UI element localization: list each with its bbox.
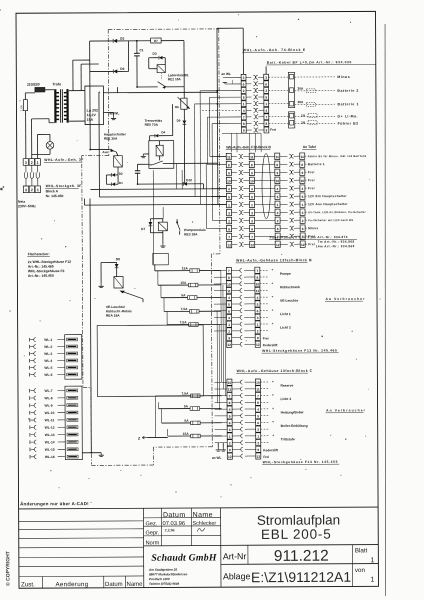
svg-text:Postfach 1160: Postfach 1160 bbox=[149, 577, 170, 581]
relay contact REA with arrow bbox=[122, 291, 143, 299]
svg-text:230V~50Hz: 230V~50Hz bbox=[18, 204, 36, 208]
connector column B4 bbox=[300, 153, 305, 159]
charger output feed to battery bbox=[103, 91, 217, 94]
charger module LA 202 bbox=[85, 86, 104, 125]
svg-text:Kederslift: Kederslift bbox=[263, 343, 279, 347]
svg-text:9: 9 bbox=[229, 448, 231, 452]
svg-text:WHL-Steckgehäuse F3: WHL-Steckgehäuse F3 bbox=[28, 269, 65, 273]
svg-text:8: 8 bbox=[256, 276, 258, 280]
svg-text:14m Art.-Nr.: 934.869: 14m Art.-Nr.: 934.869 bbox=[316, 244, 355, 248]
svg-text:07.03.96: 07.03.96 bbox=[162, 521, 185, 527]
svg-text:an WL: an WL bbox=[221, 72, 231, 76]
svg-text:Boiler-Entlüftung: Boiler-Entlüftung bbox=[281, 424, 308, 428]
svg-text:110/220: 110/220 bbox=[27, 83, 40, 87]
svg-text:4: 4 bbox=[251, 187, 253, 191]
svg-text:WL-15: WL-15 bbox=[45, 448, 55, 452]
svg-text:4: 4 bbox=[302, 187, 304, 191]
svg-text:1: 1 bbox=[257, 323, 259, 327]
svg-text:11: 11 bbox=[227, 289, 231, 293]
svg-text:WL-1: WL-1 bbox=[44, 338, 52, 342]
connector column B1 bbox=[226, 153, 231, 159]
svg-text:3: 3 bbox=[228, 211, 230, 215]
connector column D2 bbox=[255, 379, 260, 385]
svg-text:Batterie 1: Batterie 1 bbox=[337, 102, 358, 106]
plug arcs block E bbox=[253, 75, 255, 79]
svg-text:2: 2 bbox=[31, 188, 33, 192]
svg-text:3: 3 bbox=[251, 211, 253, 215]
svg-text:Frei: Frei bbox=[270, 128, 276, 132]
svg-text:RE2 18A: RE2 18A bbox=[168, 77, 182, 81]
svg-text:D2: D2 bbox=[119, 172, 123, 176]
wire bus D10 row bbox=[138, 183, 183, 185]
svg-text:an WL: an WL bbox=[110, 111, 120, 115]
svg-text:Zust.: Zust. bbox=[21, 581, 35, 588]
svg-text:2: 2 bbox=[228, 219, 230, 223]
svg-text:6: 6 bbox=[257, 421, 259, 425]
junction dots bbox=[136, 86, 138, 88]
svg-text:7m Art.-Nr.: 934.868: 7m Art.-Nr.: 934.868 bbox=[318, 240, 355, 244]
mains fuse F 1.6A bbox=[23, 100, 27, 111]
svg-text:Block A: Block A bbox=[46, 189, 59, 193]
svg-text:Schlecker: Schlecker bbox=[192, 521, 216, 527]
connector column B3 bbox=[275, 153, 280, 159]
wire to ground left bbox=[101, 261, 117, 263]
svg-text:911.212: 911.212 bbox=[274, 548, 329, 565]
svg-text:Gepr.: Gepr. bbox=[146, 530, 160, 536]
wire bus row6 bbox=[99, 195, 226, 198]
svg-text:3: 3 bbox=[302, 211, 304, 215]
wire junction bbox=[127, 41, 129, 71]
wire 12V feed bbox=[90, 40, 113, 42]
svg-text:4: 4 bbox=[228, 187, 230, 191]
svg-text:Batterie 2: Batterie 2 bbox=[337, 89, 358, 93]
svg-text:4: 4 bbox=[257, 408, 259, 412]
svg-text:7: 7 bbox=[251, 235, 253, 239]
mains plug housing Block A row 2 bbox=[23, 186, 28, 193]
svg-text:3: 3 bbox=[25, 161, 27, 165]
svg-text:2: 2 bbox=[257, 329, 259, 333]
svg-text:5: 5 bbox=[251, 195, 253, 199]
title block table bbox=[19, 507, 378, 509]
svg-text:Ablage: Ablage bbox=[223, 571, 251, 581]
wire charger + output bus bbox=[116, 87, 118, 93]
svg-text:3: 3 bbox=[257, 428, 259, 432]
relay coil RE2 Laderelais B1 bbox=[157, 65, 165, 73]
plug contacts bbox=[24, 172, 27, 178]
svg-text:Kühlschrank: Kühlschrank bbox=[280, 285, 300, 289]
svg-text:1: 1 bbox=[257, 435, 259, 439]
svg-text:Minus: Minus bbox=[308, 226, 318, 230]
svg-text:LA 202: LA 202 bbox=[87, 109, 98, 113]
svg-text:WL-3: WL-3 bbox=[44, 352, 52, 356]
svg-text:WHL-Aufn.-Gehäuse 13fach-Block: WHL-Aufn.-Gehäuse 13fach-Block C bbox=[237, 369, 313, 373]
svg-text:RE1 35A: RE1 35A bbox=[104, 137, 118, 141]
svg-text:1: 1 bbox=[37, 161, 39, 165]
svg-text:WL-4: WL-4 bbox=[44, 359, 52, 363]
svg-text:WHL-Aufn.-Geh. 74-Block E: WHL-Aufn.-Geh. 74-Block E bbox=[243, 48, 306, 52]
svg-text:12: 12 bbox=[227, 343, 231, 347]
svg-text:14,2V: 14,2V bbox=[87, 113, 97, 117]
relay coil RE1 bbox=[114, 156, 123, 167]
svg-text:Frei: Frei bbox=[308, 186, 315, 190]
svg-text:9: 9 bbox=[301, 171, 303, 175]
svg-text:+: + bbox=[272, 322, 274, 326]
svg-text:2: 2 bbox=[228, 330, 230, 334]
svg-text:15A: 15A bbox=[183, 432, 190, 436]
svg-text:+: + bbox=[272, 308, 274, 312]
svg-text:+: + bbox=[272, 380, 274, 384]
ground WL strip bbox=[82, 452, 101, 454]
svg-text:An Verbraucher: An Verbraucher bbox=[325, 297, 365, 301]
svg-text:+: + bbox=[271, 268, 273, 272]
wire pin7 feed bbox=[207, 116, 241, 118]
svg-text:Kederslift: Kederslift bbox=[263, 448, 279, 452]
svg-text:7,5A: 7,5A bbox=[182, 392, 190, 396]
svg-text:9: 9 bbox=[251, 171, 253, 175]
wire secondary to charger bbox=[69, 90, 85, 92]
svg-text:11: 11 bbox=[227, 155, 231, 159]
svg-text:5: 5 bbox=[243, 96, 245, 100]
svg-text:9: 9 bbox=[257, 336, 259, 340]
svg-text:10: 10 bbox=[256, 282, 260, 286]
svg-text:C1: C1 bbox=[139, 48, 143, 52]
svg-text:Datum: Datum bbox=[105, 582, 123, 588]
svg-text:Licht 1: Licht 1 bbox=[280, 312, 291, 316]
wire bus row5 bbox=[90, 188, 226, 191]
svg-text:11: 11 bbox=[301, 155, 305, 159]
Art-Nr row bbox=[221, 544, 378, 547]
svg-text:5: 5 bbox=[228, 195, 230, 199]
svg-text:12: 12 bbox=[301, 243, 305, 247]
datum/name table bbox=[143, 516, 220, 518]
svg-text:8: 8 bbox=[228, 276, 230, 280]
svg-text:2: 2 bbox=[257, 441, 259, 445]
svg-text:8: 8 bbox=[251, 163, 253, 167]
riser connect bbox=[222, 132, 261, 134]
svg-text:12: 12 bbox=[276, 243, 280, 247]
svg-text:6: 6 bbox=[302, 227, 304, 231]
svg-text:WL-7: WL-7 bbox=[44, 389, 52, 393]
svg-text:3: 3 bbox=[243, 76, 245, 80]
svg-text:REA 18A: REA 18A bbox=[106, 314, 120, 318]
svg-text:Nr. 145.450: Nr. 145.450 bbox=[46, 194, 64, 198]
svg-text:Name: Name bbox=[193, 512, 213, 519]
svg-text:7: 7 bbox=[228, 235, 230, 239]
svg-text:6: 6 bbox=[277, 227, 279, 231]
svg-text:6: 6 bbox=[251, 227, 253, 231]
svg-text:2: 2 bbox=[229, 441, 231, 445]
relay contact RE5 bbox=[152, 161, 163, 165]
svg-text:5: 5 bbox=[228, 303, 230, 307]
wire pin4 feed (dashed) bbox=[202, 109, 241, 111]
wire pin1 feed bbox=[195, 103, 242, 105]
mains connector housing Block A row 1 bbox=[23, 159, 28, 166]
svg-text:10: 10 bbox=[227, 283, 231, 287]
svg-text:Batt.-Kabel BF L=0,2m Art.-Nr.: Batt.-Kabel BF L=0,2m Art.-Nr.: 934.030 bbox=[267, 60, 352, 64]
svg-text:RE5 70A: RE5 70A bbox=[145, 123, 159, 127]
svg-text:WL-2: WL-2 bbox=[44, 345, 52, 349]
svg-text:7: 7 bbox=[243, 115, 245, 119]
svg-text:Frei: Frei bbox=[263, 455, 269, 459]
svg-text:15A: 15A bbox=[182, 266, 189, 270]
svg-text:7: 7 bbox=[257, 394, 259, 398]
svg-text:1A: 1A bbox=[301, 121, 306, 125]
svg-text:WL-12: WL-12 bbox=[45, 426, 55, 430]
svg-text:3: 3 bbox=[277, 211, 279, 215]
output leads block D bbox=[260, 381, 269, 383]
svg-text:12: 12 bbox=[257, 455, 261, 459]
svg-text:9: 9 bbox=[243, 129, 245, 133]
svg-text:1A: 1A bbox=[301, 113, 306, 117]
wire bus row7 bbox=[85, 203, 227, 206]
svg-text:2x WHL-Steckgehäuse F12: 2x WHL-Steckgehäuse F12 bbox=[28, 260, 71, 264]
svg-text:E:\Z1\911212A1: E:\Z1\911212A1 bbox=[251, 569, 351, 586]
wires into block E bbox=[242, 28, 244, 74]
svg-text:Änderungen nur über A-CAD!: Änderungen nur über A-CAD! bbox=[20, 501, 89, 506]
risers above block B bbox=[230, 133, 232, 152]
svg-text:3: 3 bbox=[265, 76, 267, 80]
ground Trennrelais bbox=[143, 153, 149, 155]
svg-text:1: 1 bbox=[251, 203, 253, 207]
svg-text:Licht 2: Licht 2 bbox=[280, 326, 291, 330]
svg-text:1: 1 bbox=[243, 102, 245, 106]
svg-text:8: 8 bbox=[243, 122, 245, 126]
svg-text:3: 3 bbox=[229, 428, 231, 432]
svg-text:R7: R7 bbox=[154, 39, 158, 43]
svg-text:30A: 30A bbox=[297, 87, 304, 91]
svg-text:12: 12 bbox=[228, 455, 232, 459]
output leads block C bbox=[260, 269, 269, 271]
svg-text:9: 9 bbox=[276, 171, 278, 175]
Ablage row bbox=[221, 563, 378, 566]
svg-text:3: 3 bbox=[257, 316, 259, 320]
svg-text:11: 11 bbox=[250, 155, 254, 159]
svg-text:WL-8: WL-8 bbox=[45, 396, 53, 400]
svg-text:12: 12 bbox=[227, 243, 231, 247]
svg-text:+: + bbox=[271, 281, 273, 285]
svg-text:11: 11 bbox=[276, 155, 280, 159]
svg-text:7,5A: 7,5A bbox=[180, 320, 188, 324]
dashed links E-B to fuses bbox=[269, 76, 289, 78]
Trennrelais box bbox=[149, 141, 174, 169]
ground at Minus pin bbox=[225, 83, 241, 85]
scan noise speckles bbox=[0, 9, 1, 11]
svg-text:7,5A: 7,5A bbox=[181, 307, 189, 311]
svg-text:D10: D10 bbox=[186, 178, 192, 182]
svg-text:1: 1 bbox=[302, 203, 304, 207]
svg-text:1: 1 bbox=[228, 203, 230, 207]
svg-text:7.3.96: 7.3.96 bbox=[164, 528, 174, 533]
relay coil RE3 bbox=[158, 222, 167, 231]
svg-text:Aenderung: Aenderung bbox=[55, 581, 88, 588]
svg-text:Telefon (07544) 9649: Telefon (07544) 9649 bbox=[149, 582, 179, 586]
wire pin2 feed bbox=[200, 90, 241, 92]
svg-text:30A: 30A bbox=[297, 100, 304, 104]
svg-text:1: 1 bbox=[370, 577, 374, 584]
svg-text:6: 6 bbox=[228, 227, 230, 231]
plug arcs D bbox=[240, 380, 242, 384]
svg-text:© COPYRIGHT: © COPYRIGHT bbox=[4, 551, 11, 586]
svg-text:15A: 15A bbox=[180, 281, 187, 285]
svg-text:6: 6 bbox=[243, 82, 245, 86]
svg-text:8: 8 bbox=[257, 401, 259, 405]
relay contact RE3 switch bbox=[176, 219, 178, 222]
svg-text:5A: 5A bbox=[184, 404, 189, 408]
svg-text:Trafo: Trafo bbox=[52, 82, 62, 86]
terminal strip WL-7..WL-16 bbox=[65, 386, 82, 460]
svg-text:WL-5: WL-5 bbox=[44, 366, 52, 370]
svg-text:WHL-Steckgehäuse F13 Nr. 145: WHL-Steckgehäuse F13 Nr. 145.455 bbox=[263, 460, 338, 464]
plug arcs B1-B2 bbox=[239, 154, 241, 158]
svg-text:6: 6 bbox=[229, 421, 231, 425]
svg-text:8: 8 bbox=[276, 163, 278, 167]
svg-text:Heizung/Boiler: Heizung/Boiler bbox=[281, 410, 305, 414]
svg-text:4: 4 bbox=[228, 296, 230, 300]
svg-text:Pu-/Schalter mit LED nach RS: Pu-/Schalter mit LED nach RS bbox=[308, 218, 353, 222]
svg-text:WB-Aufn.-Geh. F12-Block B: WB-Aufn.-Geh. F12-Block B bbox=[226, 145, 271, 149]
svg-text:WL-6: WL-6 bbox=[44, 373, 52, 377]
junction dots block E feeds bbox=[216, 90, 218, 92]
svg-text:WHL-Aufn.-Geh. 3F: WHL-Aufn.-Geh. 3F bbox=[44, 158, 84, 162]
svg-text:Name: Name bbox=[126, 582, 143, 588]
svg-text:5: 5 bbox=[257, 414, 259, 418]
svg-text:An Verbraucher: An Verbraucher bbox=[326, 408, 366, 412]
svg-text:9: 9 bbox=[228, 171, 230, 175]
svg-text:WHL-Steckgeh. 3F: WHL-Steckgeh. 3F bbox=[46, 184, 82, 188]
vertical wires to panel block bbox=[175, 163, 177, 189]
svg-text:Art.-Nr.: 145.450: Art.-Nr.: 145.450 bbox=[28, 274, 54, 278]
svg-text:RE3 18A: RE3 18A bbox=[184, 232, 198, 236]
svg-text:D8: D8 bbox=[116, 257, 120, 261]
svg-text:7: 7 bbox=[229, 394, 231, 398]
wires into B1 bbox=[211, 156, 226, 158]
plug arcs B3-B4 bbox=[289, 154, 291, 158]
connector column D1 bbox=[227, 379, 232, 385]
svg-text:5: 5 bbox=[302, 195, 304, 199]
svg-text:An Tafel: An Tafel bbox=[303, 145, 316, 149]
svg-text:10: 10 bbox=[301, 179, 305, 183]
resistor R7 bbox=[151, 38, 162, 43]
svg-text:7: 7 bbox=[256, 269, 258, 273]
svg-text:R6: R6 bbox=[175, 105, 179, 109]
spare fuse capsules (dashed) bbox=[306, 89, 315, 93]
svg-text:+: + bbox=[272, 420, 274, 424]
svg-text:8: 8 bbox=[229, 401, 231, 405]
ground pump relay bbox=[162, 243, 164, 245]
svg-text:8: 8 bbox=[228, 163, 230, 167]
svg-text:4: 4 bbox=[257, 296, 259, 300]
svg-text:WL-9: WL-9 bbox=[45, 404, 53, 408]
cable oval bbox=[262, 154, 271, 219]
svg-text:5: 5 bbox=[229, 415, 231, 419]
svg-text:+: + bbox=[272, 393, 274, 397]
dashed battery leads bbox=[295, 76, 335, 78]
svg-text:von: von bbox=[355, 567, 366, 574]
svg-text:Flachstecker:: Flachstecker: bbox=[28, 252, 50, 256]
svg-text:Am Stadtgraben 25: Am Stadtgraben 25 bbox=[148, 568, 177, 572]
svg-text:Trittstufe: Trittstufe bbox=[281, 437, 295, 441]
svg-text:88677 Markdorf/Bodensee: 88677 Markdorf/Bodensee bbox=[149, 572, 188, 576]
svg-text:5: 5 bbox=[257, 303, 259, 307]
EBL module boundary (dash-dot) bbox=[108, 28, 219, 31]
svg-text:Fühler B2: Fühler B2 bbox=[338, 122, 359, 126]
svg-text:Frei: Frei bbox=[263, 337, 269, 341]
wire long bus left bbox=[90, 199, 91, 453]
svg-text:WL-16: WL-16 bbox=[45, 455, 55, 459]
svg-text:Datum: Datum bbox=[163, 512, 186, 519]
svg-text:+: + bbox=[272, 406, 274, 410]
svg-text:D6: D6 bbox=[120, 67, 124, 71]
svg-text:3: 3 bbox=[25, 188, 27, 192]
svg-text:Stromlaufplan: Stromlaufplan bbox=[257, 512, 340, 527]
wire pin8 feed bbox=[212, 123, 241, 125]
svg-text:Netz: Netz bbox=[18, 200, 25, 204]
svg-text:4: 4 bbox=[243, 109, 245, 113]
svg-text:10: 10 bbox=[227, 179, 231, 183]
svg-text:1: 1 bbox=[37, 188, 39, 192]
svg-text:Minus: Minus bbox=[337, 75, 350, 79]
svg-text:11: 11 bbox=[256, 289, 260, 293]
svg-text:2: 2 bbox=[243, 89, 245, 93]
svg-text:Pumpe: Pumpe bbox=[280, 272, 291, 276]
svg-text:D9: D9 bbox=[177, 119, 181, 123]
svg-text:D+ Li-Ma.: D+ Li-Ma. bbox=[338, 114, 359, 118]
svg-text:5: 5 bbox=[277, 195, 279, 199]
svg-text:WHL-Aufn.-Gehäuse 13fach-Block: WHL-Aufn.-Gehäuse 13fach-Block B bbox=[236, 258, 312, 262]
svg-text:Aus: Aus bbox=[102, 150, 108, 154]
connector column C2 bbox=[255, 267, 260, 273]
svg-text:10: 10 bbox=[256, 381, 260, 385]
svg-text:Fühler B1 für Minus, inkl. Ind: Fühler B1 für Minus, inkl. Ind Bat/Tank bbox=[308, 154, 367, 158]
feeder verticals to blocks C and D bbox=[220, 270, 223, 382]
wires into C1 bbox=[214, 269, 226, 271]
links B2-B3 bbox=[254, 155, 274, 157]
svg-text:12: 12 bbox=[250, 243, 254, 247]
svg-text:D7: D7 bbox=[141, 227, 145, 231]
svg-text:Frei: Frei bbox=[308, 178, 315, 182]
svg-text:9: 9 bbox=[228, 336, 230, 340]
svg-text:Frei: Frei bbox=[308, 170, 315, 174]
svg-text:2: 2 bbox=[302, 219, 304, 223]
svg-text:Reserve: Reserve bbox=[280, 384, 293, 388]
svg-text:UV-Tank, LED-Kl./Dimmer, Pu-Sc: UV-Tank, LED-Kl./Dimmer, Pu-Schalter bbox=[308, 210, 366, 214]
svg-text:5A: 5A bbox=[184, 419, 189, 423]
svg-text:12V Ein Hauptschalter: 12V Ein Hauptschalter bbox=[308, 194, 347, 198]
page edge line (scan) bbox=[383, 24, 388, 596]
svg-text:Art-Nr: Art-Nr bbox=[223, 551, 247, 561]
svg-text:9: 9 bbox=[257, 448, 259, 452]
svg-text:4: 4 bbox=[265, 109, 267, 113]
terminal strip WL-1..WL-6 bbox=[65, 335, 82, 380]
svg-text:4: 4 bbox=[277, 187, 279, 191]
connector column C1 bbox=[226, 267, 231, 273]
svg-text:Gez.: Gez. bbox=[145, 521, 157, 527]
12V bus wire bbox=[137, 86, 158, 88]
svg-text:6: 6 bbox=[257, 309, 259, 313]
svg-text:Blatt: Blatt bbox=[355, 547, 368, 554]
svg-text:D3: D3 bbox=[153, 52, 157, 56]
capacitor C2 bbox=[136, 164, 138, 171]
svg-text:2: 2 bbox=[265, 89, 267, 93]
svg-text:+: + bbox=[272, 433, 274, 437]
svg-text:Batterie 1: Batterie 1 bbox=[308, 162, 325, 166]
svg-text:8: 8 bbox=[265, 122, 267, 126]
svg-text:D1: D1 bbox=[119, 181, 123, 185]
svg-text:EBL 200-5: EBL 200-5 bbox=[261, 527, 332, 542]
svg-text:10: 10 bbox=[276, 179, 280, 183]
mains wires to transformer bbox=[25, 111, 27, 159]
svg-text:5A: 5A bbox=[181, 293, 186, 297]
